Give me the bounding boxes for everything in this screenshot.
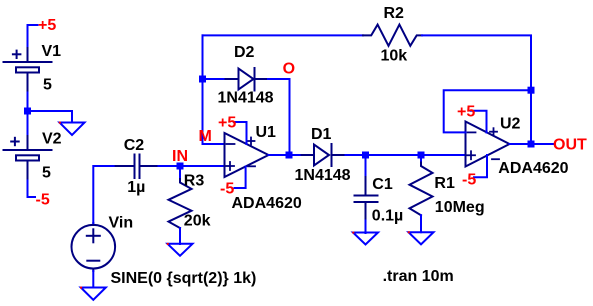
svg-text:M: M	[199, 128, 212, 145]
svg-text:-5: -5	[462, 171, 476, 188]
wire C1 stub	[365, 155, 367, 177]
wire top rail left segment	[203, 34, 364, 36]
svg-text:-5: -5	[36, 192, 50, 209]
svg-text:O: O	[283, 60, 295, 77]
svg-text:U2: U2	[500, 116, 521, 133]
svg-text:.tran 10m: .tran 10m	[383, 268, 454, 285]
battery V2	[4, 136, 52, 181]
resistor R3	[169, 179, 192, 228]
wire M node: rail corner down to U1 inverting input	[203, 35, 225, 144]
node A (junction between V1 and V2)	[24, 108, 31, 115]
svg-text:R1: R1	[434, 175, 455, 192]
svg-text:+5: +5	[38, 17, 56, 34]
svg-text:Vin: Vin	[109, 215, 134, 232]
svg-text:+5: +5	[218, 115, 236, 132]
ground (between V1 and V2)	[60, 123, 85, 136]
wire Vin bottom to ground	[92, 271, 94, 288]
svg-text:V2: V2	[42, 131, 62, 148]
svg-text:C1: C1	[372, 176, 393, 193]
svg-text:+5: +5	[457, 103, 475, 120]
wire U1 output to D1	[269, 154, 302, 156]
battery V1	[4, 48, 52, 93]
wire U2 +5 supply stub	[471, 111, 487, 133]
capacitor C1	[355, 177, 378, 221]
wire V2 bottom to -5 label	[28, 181, 36, 198]
wire U2 output to OUT	[510, 143, 554, 145]
wire U1 -5 supply stub	[235, 167, 246, 189]
node M	[199, 76, 206, 83]
svg-text:ADA4620: ADA4620	[498, 160, 568, 177]
wire U1 +5 supply stub	[234, 122, 247, 144]
voltage source Vin	[72, 223, 116, 271]
wire junction to mid ground	[28, 111, 73, 123]
svg-text:U1: U1	[256, 124, 277, 141]
capacitor C2	[116, 155, 159, 179]
wire IN junction down to R3	[179, 166, 181, 179]
diode D2	[226, 68, 269, 91]
op-amp U1	[225, 133, 269, 177]
wire +5 supply to V1 top	[28, 25, 38, 48]
svg-text:20k: 20k	[184, 212, 211, 229]
ground (below C1)	[353, 233, 378, 245]
wire R1 stub	[420, 155, 422, 163]
svg-text:5: 5	[42, 164, 51, 181]
svg-text:1N4148: 1N4148	[295, 167, 351, 184]
wire junction to V2 top	[27, 111, 29, 136]
wire C1 bottom to ground	[365, 221, 367, 234]
svg-text:OUT: OUT	[553, 136, 587, 153]
wire D2 anode	[203, 78, 226, 80]
resistor R2	[363, 25, 422, 46]
node IN	[177, 163, 184, 170]
svg-text:SINE(0 {sqrt(2)} 1k): SINE(0 {sqrt(2)} 1k)	[111, 270, 257, 287]
node OUT junction	[528, 141, 535, 148]
svg-text:R3: R3	[184, 173, 205, 190]
ground (below R3)	[168, 244, 193, 256]
wire Vin top to input row	[93, 166, 115, 223]
svg-text:V1: V1	[42, 43, 62, 60]
node feedback junction	[528, 87, 535, 94]
svg-text:R2: R2	[384, 5, 405, 22]
svg-text:10Meg: 10Meg	[435, 199, 485, 216]
wire U2 -5 supply stub	[474, 155, 487, 177]
wire R3 bottom to ground	[179, 228, 181, 244]
wire R1 bottom to ground	[420, 215, 422, 232]
svg-text:10k: 10k	[381, 48, 408, 65]
node U1 output junction	[286, 152, 293, 159]
wire D1 cathode to U2 noninverting input	[346, 154, 466, 156]
wire top rail right segment down to output node	[422, 35, 531, 144]
svg-text:1µ: 1µ	[127, 179, 145, 196]
diode D1	[302, 144, 346, 166]
wire C2 to IN node to U1 noninverting input	[159, 165, 225, 167]
wire V1 bottom to junction	[27, 93, 29, 112]
svg-text:-5: -5	[220, 180, 234, 197]
wire U2 feedback output to inverting input	[444, 90, 531, 132]
svg-text:D2: D2	[234, 44, 255, 61]
ground (below R1)	[409, 232, 434, 244]
svg-text:0.1µ: 0.1µ	[372, 207, 403, 224]
svg-text:IN: IN	[172, 148, 188, 165]
svg-text:ADA4620: ADA4620	[232, 195, 302, 212]
ground (below Vin)	[81, 288, 106, 300]
op-amp U2	[466, 122, 510, 167]
svg-text:C2: C2	[124, 137, 145, 154]
node C1 top junction	[362, 152, 369, 159]
svg-text:D1: D1	[311, 126, 332, 143]
node R1 top junction	[418, 152, 425, 159]
svg-text:1N4148: 1N4148	[218, 90, 274, 107]
wire D2 cathode to O corner down to U1 output	[268, 79, 290, 155]
resistor R1	[410, 163, 433, 216]
svg-text:5: 5	[43, 77, 52, 94]
